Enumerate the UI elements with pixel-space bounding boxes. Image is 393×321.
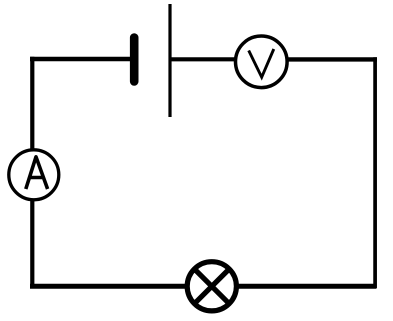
wire voltmeter to top-right corner bbox=[287, 57, 377, 61]
wire bottom-right horizontal bbox=[238, 284, 377, 289]
lamp L1 cross bbox=[194, 269, 229, 304]
wire top-left horizontal bbox=[30, 57, 130, 61]
voltmeter V1 letter V bbox=[249, 49, 274, 77]
voltmeter V1 circle bbox=[235, 36, 287, 88]
ammeter A1 letter A bbox=[26, 157, 48, 189]
wire left vertical upper bbox=[30, 57, 34, 149]
battery B1 thick plate (negative terminal) bbox=[130, 38, 139, 82]
wire battery to voltmeter bbox=[170, 57, 236, 61]
battery B1 thin plate (positive terminal) bbox=[168, 4, 171, 117]
wire left vertical lower bbox=[30, 201, 34, 289]
wire bottom-left horizontal bbox=[30, 284, 186, 289]
lamp L1 circle bbox=[187, 262, 236, 311]
wire right vertical bbox=[373, 57, 377, 288]
ammeter A1 circle bbox=[9, 150, 59, 200]
